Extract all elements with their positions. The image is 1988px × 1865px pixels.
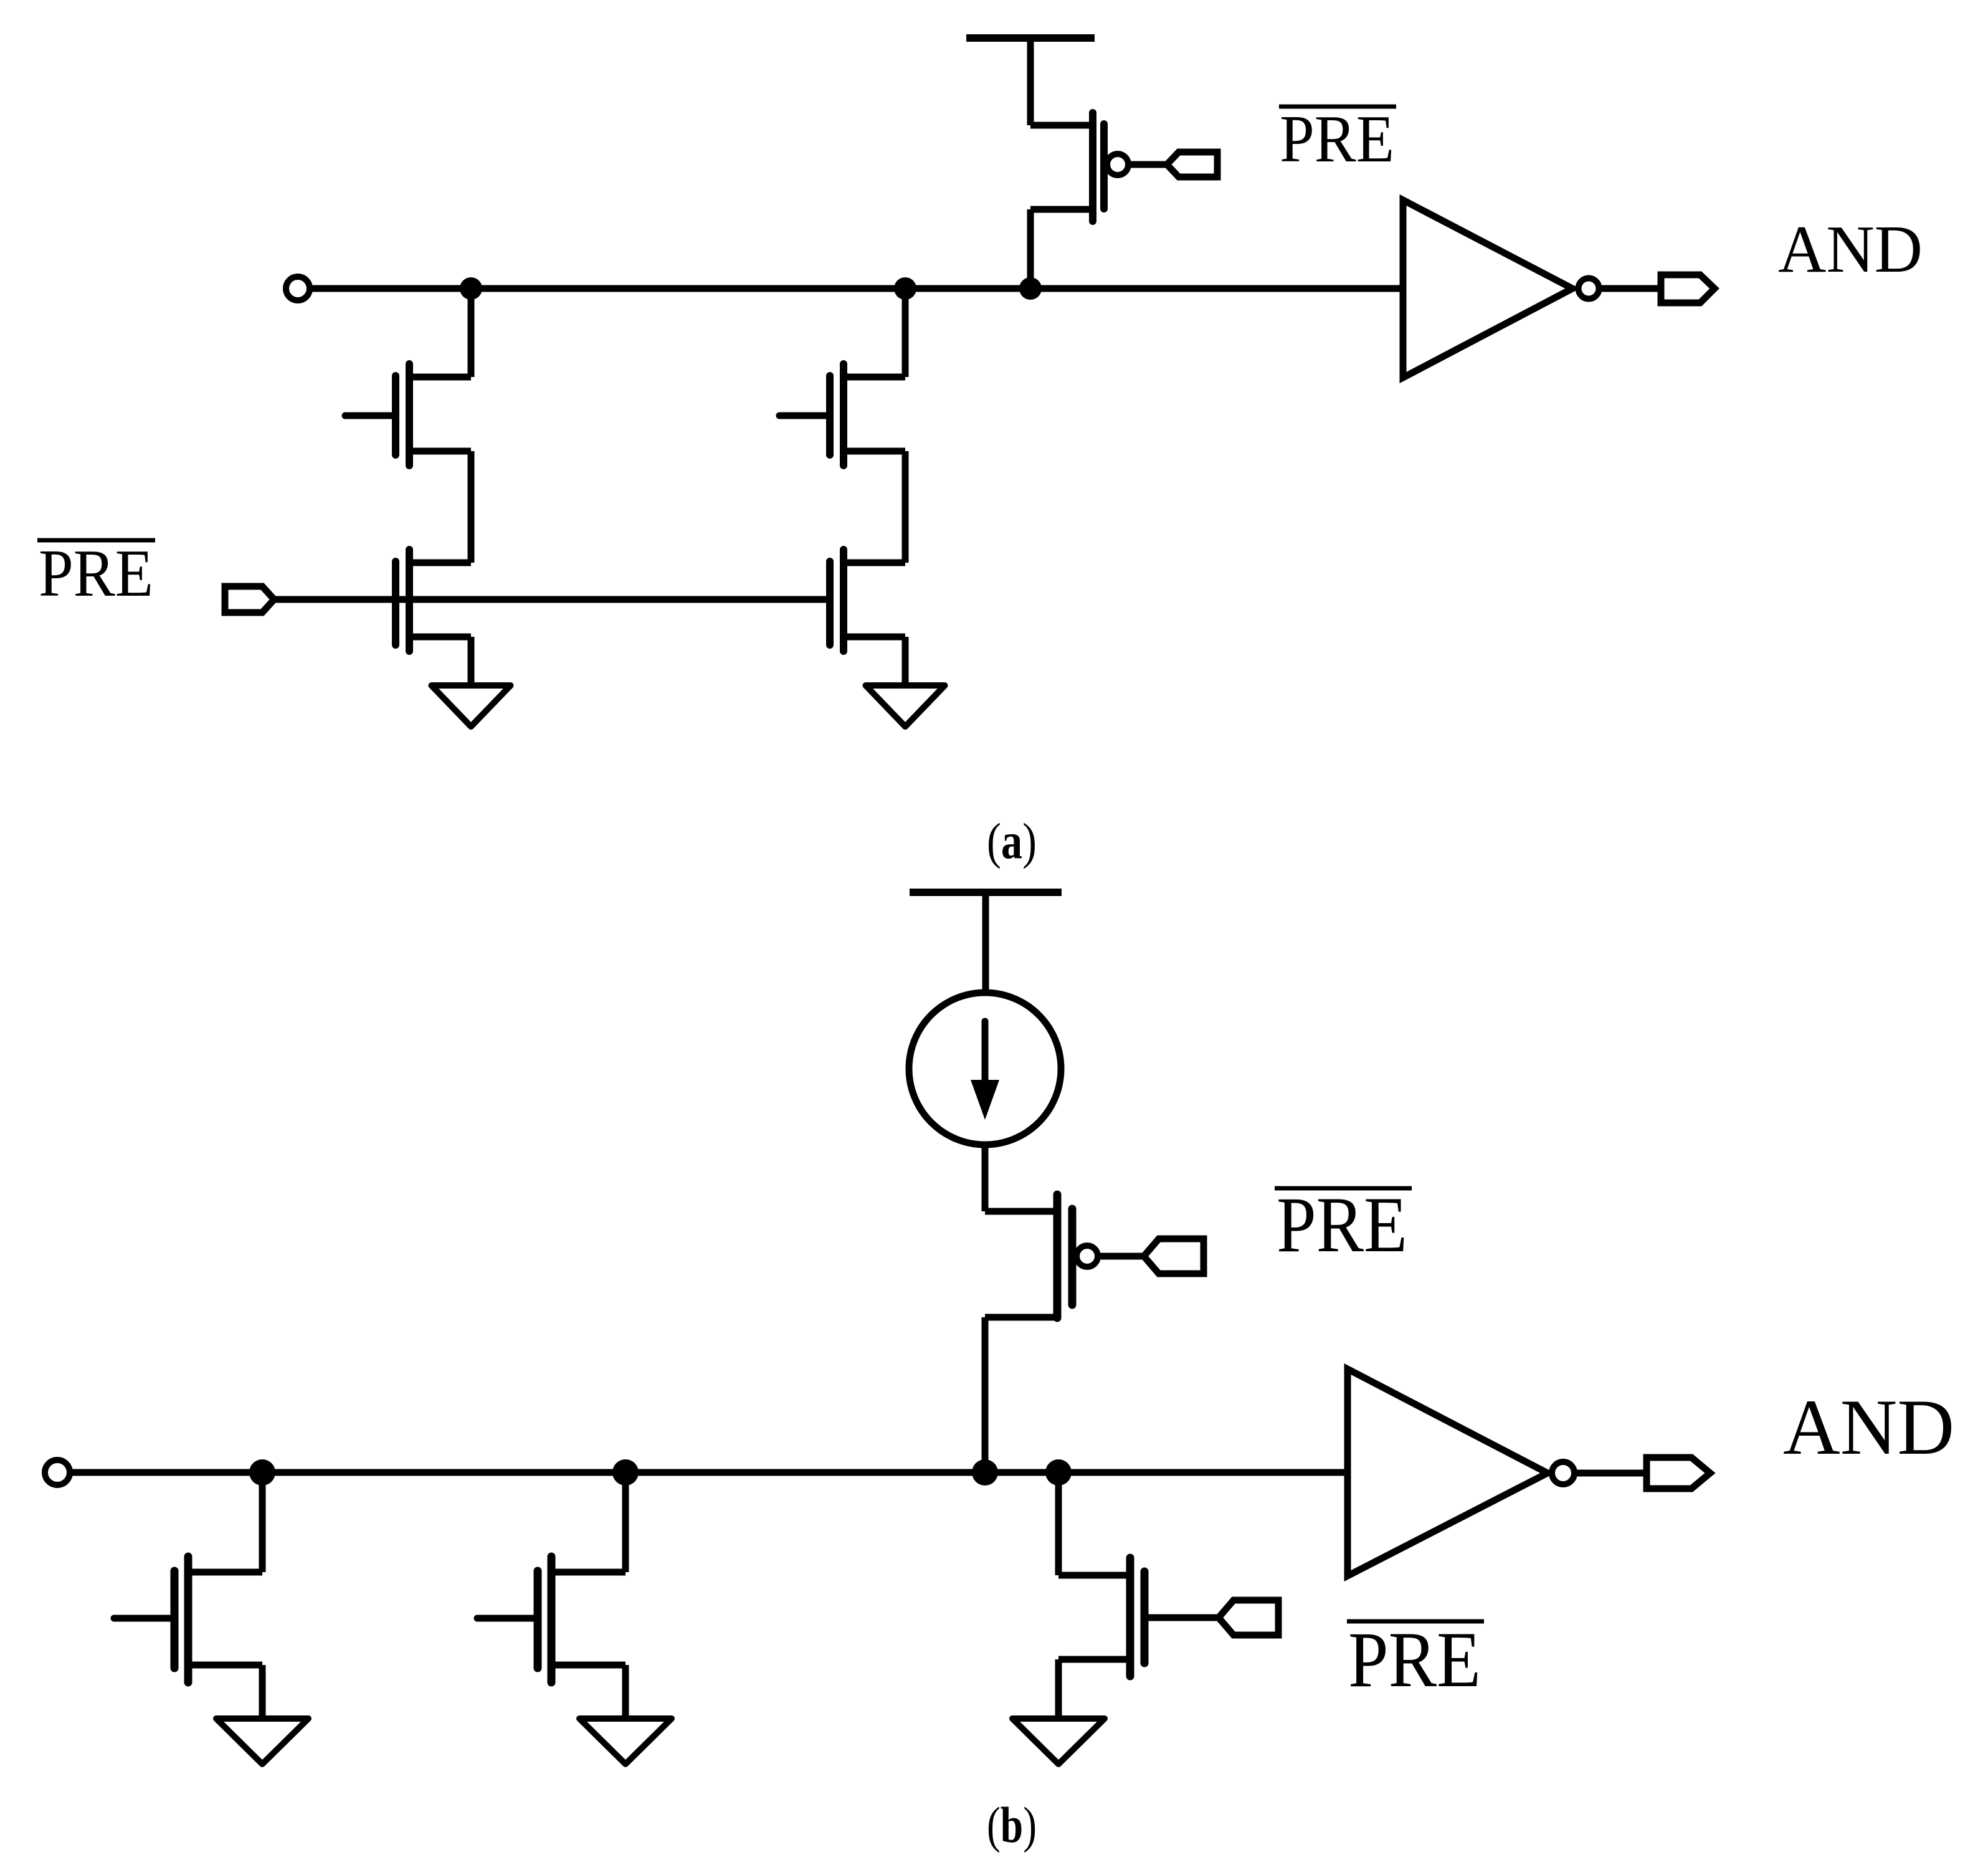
inverter U1 output bubble (a)	[1579, 279, 1599, 299]
nmos M1/M2 (a left stack) top gate stub	[345, 413, 396, 419]
wire: inverter to output pin (a)	[1597, 285, 1661, 292]
wire: PRE bus to series gates (a)	[274, 596, 830, 603]
inverter U2 output bubble (b)	[1552, 1462, 1574, 1484]
inverter U2 triangle (b)	[1348, 1369, 1548, 1576]
ground symbol under M6 (b)	[579, 1719, 672, 1764]
nmos M1/M2 (a left stack) top source lead	[409, 448, 471, 455]
nmos M3/M4 (a right stack) top channel bar	[840, 364, 847, 465]
nmos M3/M4 (a right stack) top drain lead	[844, 374, 905, 381]
pmos MP1 gate bubble (a)	[1107, 154, 1128, 175]
junction node (b) at M7 drain	[1045, 1459, 1072, 1486]
pin PRE gate terminal (b)	[1144, 1239, 1204, 1274]
nmos M6 (b) gate bar	[534, 1571, 542, 1668]
pmos MP2 drain lead (b)	[985, 1314, 1057, 1321]
junction node (b) at M5 drain	[249, 1459, 275, 1486]
nmos M6 (b) drain lead	[551, 1569, 625, 1576]
VDD supply bar (b)	[910, 889, 1062, 896]
ground symbol under M7 (b)	[1012, 1719, 1105, 1764]
inverter U1 triangle (a)	[1403, 200, 1572, 378]
wire: current source to PMOS source (b)	[982, 1145, 989, 1211]
nmos M5 (b) gate stub	[114, 1615, 174, 1622]
nmos M3/M4 (a right stack) bottom source lead	[844, 634, 905, 641]
svg-text:AND: AND	[1778, 212, 1923, 287]
pin AND output terminal (b)	[1647, 1457, 1710, 1489]
junction node (a) at PMOS drain	[1019, 277, 1042, 300]
wire: rail to M6 (b) drain	[622, 1472, 629, 1572]
wire: M7 gate to PRE pin (b)	[1144, 1615, 1219, 1621]
VDD supply bar (a)	[966, 34, 1095, 42]
nmos M7 channel bar (b)	[1126, 1558, 1134, 1676]
nmos M5 (b) channel bar	[184, 1557, 193, 1682]
nmos M3/M4 (a right stack) bottom drain lead	[844, 560, 905, 566]
nmos M6 (b) gate stub	[477, 1615, 538, 1622]
pmos MP2 gate bubble (b)	[1077, 1246, 1098, 1267]
junction node (a) at M1 drain	[460, 277, 482, 300]
nmos M3/M4 (a right stack) top source lead	[844, 448, 905, 455]
svg-text:PRE: PRE	[1277, 1181, 1407, 1269]
wire: M3/M4 (a right stack) source to ground	[902, 637, 909, 685]
junction node (a) at M3 drain	[894, 277, 916, 300]
current source I1 arrowhead (b)	[971, 1080, 999, 1120]
nmos M7 gate bar (b)	[1141, 1572, 1149, 1663]
svg-text:AND: AND	[1783, 1384, 1954, 1471]
label PRE overline (b bottom)	[1347, 1619, 1484, 1624]
label PRE overline (a left)	[37, 538, 155, 543]
wire: M5 (b) source to ground	[259, 1665, 266, 1719]
nmos M3/M4 (a right stack) bottom channel bar	[840, 550, 847, 651]
nmos M3/M4 (a right stack) top gate stub	[779, 413, 830, 419]
wire: PMOS gate to PRE pin (a)	[1128, 161, 1167, 168]
wire: sense rail (b)	[65, 1469, 1348, 1476]
nmos M6 (b) source lead	[551, 1662, 625, 1669]
input terminal IN (b)	[45, 1460, 70, 1485]
pmos MP1 channel bar (a)	[1089, 113, 1096, 221]
nmos M7 drain lead (b)	[1058, 1572, 1130, 1579]
label PRE overline (b top)	[1275, 1186, 1412, 1191]
nmos M1/M2 (a left stack) bottom source lead	[409, 634, 471, 641]
ground symbol under M5 (b)	[216, 1719, 308, 1764]
wire: rail to M1/M2 (a left stack) top drain	[468, 289, 475, 377]
wire: precharge node rail (a)	[305, 285, 1403, 292]
wire: VDD to PMOS source (a)	[1027, 38, 1034, 125]
nmos M6 (b) channel bar	[548, 1557, 556, 1682]
nmos M1/M2 (a left stack) top gate bar	[392, 376, 399, 455]
svg-text:PRE: PRE	[1280, 102, 1394, 176]
svg-text:PRE: PRE	[1348, 1616, 1481, 1704]
pmos MP1 source lead (a)	[1030, 122, 1093, 129]
pmos MP1 gate bar (a)	[1100, 124, 1108, 209]
nmos M7 source lead (b)	[1058, 1656, 1130, 1663]
ground symbol under M1/M2 (a left stack)	[432, 685, 511, 727]
wire: rail to M7 drain (b)	[1055, 1472, 1062, 1575]
nmos M1/M2 (a left stack) bottom drain lead	[409, 560, 471, 566]
pmos MP2 source lead (b)	[985, 1208, 1057, 1215]
wire: PMOS drain to rail (b)	[982, 1317, 989, 1472]
nmos M1/M2 (a left stack) bottom channel bar	[406, 550, 413, 651]
nmos M5 (b) drain lead	[188, 1569, 262, 1576]
pmos MP1 drain lead (a)	[1030, 206, 1093, 213]
pin PRE input terminal (a)	[225, 586, 274, 613]
nmos M5 (b) source lead	[188, 1662, 262, 1669]
wire: M1/M2 (a left stack) series connection	[468, 451, 475, 563]
svg-text:PRE: PRE	[39, 537, 153, 611]
current source I1 circle (b)	[909, 993, 1061, 1145]
label PRE overline (a top)	[1279, 105, 1396, 109]
nmos M1/M2 (a left stack) bottom gate bar	[392, 561, 399, 645]
nmos M1/M2 (a left stack) top channel bar	[406, 364, 413, 465]
wire: M6 (b) source to ground	[622, 1665, 629, 1719]
junction node (b) at M6 drain	[612, 1459, 639, 1486]
wire: inverter to output pin (b)	[1576, 1470, 1647, 1477]
nmos M3/M4 (a right stack) top gate bar	[826, 376, 834, 455]
wire: PMOS drain to rail (a)	[1027, 209, 1034, 289]
nmos M1/M2 (a left stack) top drain lead	[409, 374, 471, 381]
svg-text:(a): (a)	[987, 813, 1037, 869]
wire: M3/M4 (a right stack) series connection	[902, 451, 909, 563]
pin PRE gate terminal (a)	[1167, 152, 1217, 177]
svg-text:(b): (b)	[987, 1796, 1037, 1853]
nmos M3/M4 (a right stack) bottom gate bar	[826, 561, 834, 645]
pmos MP2 channel bar (b)	[1053, 1195, 1062, 1318]
current source I1 arrow shaft (b)	[982, 1021, 989, 1094]
pin AND output terminal (a)	[1661, 275, 1715, 303]
wire: PMOS gate to PRE pin (b)	[1099, 1253, 1144, 1260]
input terminal IN (a)	[286, 277, 310, 300]
nmos M5 (b) gate bar	[171, 1571, 179, 1668]
wire: VDD to current source (b)	[982, 892, 989, 993]
wire: rail to M5 (b) drain	[259, 1472, 266, 1572]
wire: M7 source to ground (b)	[1055, 1659, 1062, 1719]
ground symbol under M3/M4 (a right stack)	[866, 685, 945, 727]
junction node (b) at PMOS drain	[972, 1459, 998, 1486]
pin PRE gate terminal at M7 (b)	[1219, 1600, 1278, 1635]
pmos MP2 gate bar (b)	[1068, 1209, 1077, 1305]
wire: M1/M2 (a left stack) source to ground	[468, 637, 475, 685]
wire: rail to M3/M4 (a right stack) top drain	[902, 289, 909, 377]
